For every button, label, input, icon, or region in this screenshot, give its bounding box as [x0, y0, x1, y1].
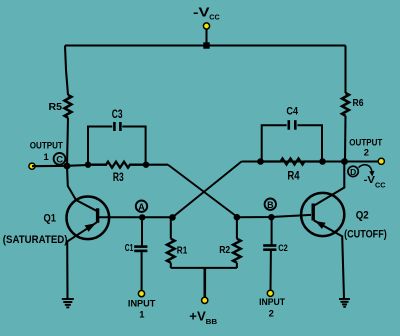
label OUTPUT 1: [30, 139, 63, 162]
wire Q1 base lead: [99, 216, 173, 218]
terminal INPUT 2: [267, 290, 273, 296]
svg-text:D: D: [350, 167, 356, 177]
transistor Q2: [301, 162, 344, 299]
svg-text:Q2: Q2: [356, 210, 369, 222]
terminal INPUT 1: [138, 291, 144, 297]
node R1 top junction: [169, 214, 176, 221]
svg-text:R1: R1: [177, 245, 188, 257]
node -Vcc junction: [203, 42, 209, 48]
resistor R4: [261, 159, 323, 165]
svg-text:Q1: Q1: [44, 213, 57, 225]
svg-text:INPUT: INPUT: [259, 296, 285, 307]
svg-text:OUTPUT: OUTPUT: [30, 139, 63, 150]
node R3 right: [143, 162, 149, 168]
resistor R3: [88, 162, 146, 168]
svg-text:R4: R4: [287, 170, 300, 182]
svg-text:R6: R6: [353, 97, 364, 109]
svg-text:+V: +V: [189, 309, 206, 324]
svg-text:C: C: [56, 154, 63, 165]
terminal +Vbb: [202, 297, 208, 303]
node C (circled C): [54, 153, 66, 165]
wire C2 to input2 terminal: [270, 250, 272, 290]
wire node A to C1: [141, 217, 143, 246]
capacitor C3: [114, 122, 120, 131]
node Q2 collector junction: [341, 158, 348, 165]
node B junction: [268, 214, 274, 220]
svg-text:BB: BB: [206, 317, 218, 326]
wire right drop (top rail to R6): [344, 46, 346, 94]
wire left drop (top rail to R5): [65, 46, 68, 96]
svg-text:2: 2: [269, 307, 274, 318]
svg-text:INPUT: INPUT: [128, 297, 156, 308]
svg-text:1: 1: [139, 308, 144, 319]
svg-text:C2: C2: [278, 243, 288, 254]
node B (circled B): [265, 199, 276, 210]
wire R5 to collector junction: [67, 118, 68, 166]
terminal -Vcc: [203, 23, 209, 29]
svg-text:B: B: [267, 200, 274, 210]
terminal OUTPUT 2: [378, 158, 384, 164]
node R3 left: [85, 162, 91, 168]
wire Q2 base lead: [237, 215, 311, 217]
node R4 left: [257, 158, 264, 165]
node collector Q1 junction: [64, 163, 71, 170]
svg-text:1: 1: [44, 151, 49, 162]
label OUTPUT 2: [349, 136, 382, 157]
wire node B to C2: [271, 217, 273, 245]
svg-text:C1: C1: [125, 243, 134, 254]
svg-text:R3: R3: [113, 172, 124, 184]
resistor R1: [167, 217, 175, 268]
node A (circled A): [136, 201, 147, 212]
wire output1 rail: [32, 165, 88, 166]
transistor Q1: [67, 166, 110, 299]
capacitor C3 loop wire: [88, 127, 146, 165]
wire C1 to input1 terminal: [141, 251, 143, 291]
svg-text:C4: C4: [286, 106, 298, 118]
svg-text:(SATURATED): (SATURATED): [3, 234, 68, 246]
wire cross diagonal right-to-left: [173, 162, 242, 218]
resistor R2: [233, 217, 241, 268]
label INPUT 2: [259, 296, 285, 318]
svg-text:(CUTOFF): (CUTOFF): [344, 228, 387, 240]
svg-text:C3: C3: [112, 109, 123, 121]
node R2 top junction: [234, 214, 241, 221]
capacitor C4: [289, 120, 296, 130]
ground Q1: [62, 299, 74, 307]
svg-text:-V: -V: [364, 174, 375, 186]
wire +Vbb drop: [204, 268, 207, 298]
wire R6 to output rail: [344, 116, 347, 162]
label -Vcc: [193, 5, 220, 22]
svg-text:CC: CC: [375, 182, 386, 189]
svg-text:-V: -V: [193, 5, 210, 20]
svg-text:2: 2: [364, 146, 369, 157]
wire bottom rail R1-R2: [171, 267, 237, 269]
svg-text:CC: CC: [209, 13, 220, 22]
node R4 right: [319, 158, 326, 165]
terminal OUTPUT 1: [29, 163, 35, 169]
wire output2 rail: [242, 160, 379, 162]
label INPUT 1: [128, 297, 156, 319]
capacitor C2: [263, 246, 276, 250]
capacitor C1: [134, 247, 147, 251]
ground Q2: [339, 299, 350, 307]
node A junction: [139, 214, 145, 220]
wire cross diagonal left-to-right: [168, 165, 237, 217]
svg-text:R2: R2: [219, 244, 230, 256]
svg-text:R5: R5: [49, 101, 63, 113]
wire top rail: [65, 44, 346, 46]
wire rail to cross diagonal (left): [146, 164, 168, 166]
svg-text:A: A: [138, 202, 145, 212]
resistor R6: [342, 93, 349, 116]
resistor R5: [65, 95, 72, 118]
label +Vbb: [189, 309, 217, 326]
capacitor C4 loop wire: [262, 125, 322, 160]
node D (circled D) with arrow: [348, 165, 375, 177]
wire -Vcc stub: [206, 28, 208, 46]
label -Vcc (output 2): [364, 174, 386, 189]
